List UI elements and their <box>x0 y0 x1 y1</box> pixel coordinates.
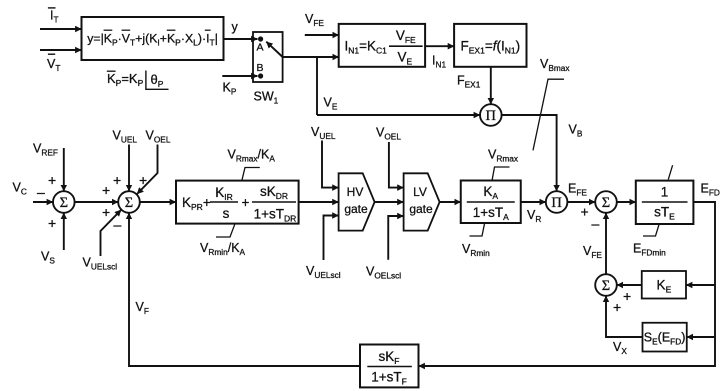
svg-text:VUEL: VUEL <box>311 125 336 141</box>
limit annotation VRmax <box>492 167 510 181</box>
svg-text:Π: Π <box>551 195 562 211</box>
svg-text:KE: KE <box>657 278 672 295</box>
wire S2 to PID <box>140 201 176 203</box>
svg-text:EFDmin: EFDmin <box>633 242 666 258</box>
wire VUELscl to S2 <box>101 210 122 256</box>
svg-text:VS: VS <box>41 250 55 266</box>
block SE(EFD) <box>643 323 687 352</box>
svg-text:sKF: sKF <box>379 349 400 366</box>
svg-text:VFE: VFE <box>583 244 602 260</box>
angle bracket of KP=KP theta <box>146 71 169 90</box>
svg-text:1+sTA: 1+sTA <box>473 205 509 222</box>
summing junction S4 <box>595 274 617 296</box>
svg-text:sKDR: sKDR <box>260 184 288 201</box>
block FEX1=f(IN1) <box>454 24 526 67</box>
wire branch to KE <box>686 284 715 286</box>
block y=|KP*VT+j(KI+KP*XL)*IT| <box>82 17 224 60</box>
switch arm SW1 <box>266 42 282 57</box>
svg-text:Σ: Σ <box>60 195 68 211</box>
svg-text:VE: VE <box>324 96 338 112</box>
svg-text:SW1: SW1 <box>254 90 279 106</box>
multiplier P2 <box>546 191 568 213</box>
svg-text:Π: Π <box>486 108 497 124</box>
svg-text:KIR: KIR <box>215 185 233 202</box>
svg-text:+: + <box>102 204 110 220</box>
wire y to node A <box>224 38 258 40</box>
block KA/(1+sTA) <box>461 181 521 224</box>
svg-text:1: 1 <box>661 185 669 200</box>
wire KE to S4 <box>617 284 642 286</box>
node B dot <box>258 73 263 78</box>
svg-text:sTE: sTE <box>654 205 675 222</box>
svg-text:VOEL: VOEL <box>146 129 171 145</box>
svg-text:VUELscl: VUELscl <box>306 264 341 280</box>
HV gate shape <box>339 173 375 230</box>
svg-text:VF: VF <box>136 300 149 316</box>
svg-text:VE: VE <box>397 50 412 67</box>
svg-text:FEX1=f(IN1): FEX1=f(IN1) <box>460 39 520 56</box>
svg-text:VRmin: VRmin <box>462 242 490 258</box>
limit annotation VRmin/KA <box>216 224 235 237</box>
svg-text:VC: VC <box>13 181 27 197</box>
svg-text:VFE: VFE <box>305 12 324 28</box>
wire SW1 output to IN1 block <box>283 56 339 58</box>
summing junction S2 <box>118 191 140 213</box>
svg-text:VUEL: VUEL <box>113 129 138 145</box>
summing junction S1 <box>53 191 75 213</box>
svg-text:gate: gate <box>344 202 368 216</box>
wire VS up <box>63 213 65 250</box>
wire VE drop from junction <box>316 57 318 115</box>
svg-text:1+sTDR: 1+sTDR <box>254 207 297 224</box>
wire P1 output VB to P2 <box>502 115 557 191</box>
svg-text:1+sTF: 1+sTF <box>371 370 407 387</box>
svg-text:KP: KP <box>223 81 237 97</box>
svg-text:EFE: EFE <box>568 182 587 198</box>
svg-text:VFE: VFE <box>396 28 416 45</box>
svg-text:HV: HV <box>347 185 364 199</box>
svg-text:VREF: VREF <box>33 142 58 158</box>
svg-text:+: + <box>139 172 147 188</box>
overbars in y formula <box>104 29 211 31</box>
svg-text:y=|KP·VT+j(KI+KP·XL)·IT|: y=|KP·VT+j(KI+KP·XL)·IT| <box>87 32 218 48</box>
svg-text:VOEL: VOEL <box>376 126 401 142</box>
node A dot <box>258 36 263 41</box>
wire VREF down <box>63 148 65 191</box>
block 1/sTE <box>636 181 694 224</box>
svg-text:VOELscl: VOELscl <box>366 265 401 281</box>
svg-text:KP=KP: KP=KP <box>107 71 144 88</box>
svg-text:+: + <box>102 182 110 198</box>
limit annotation above TE <box>668 165 672 179</box>
svg-text:Σ: Σ <box>602 195 610 211</box>
wire VOELscl to LV gate <box>388 216 403 260</box>
svg-text:+: + <box>581 204 589 220</box>
limit annotation VRmax/KA <box>242 168 260 181</box>
svg-text:VT: VT <box>47 57 60 73</box>
wire VOEL to LV gate <box>389 142 404 188</box>
block PID KPR+KIR/s+sKDR/(1+sTDR) <box>176 181 299 224</box>
wire EFD output and feedback bus <box>419 202 716 366</box>
svg-text:EFD: EFD <box>701 182 720 198</box>
svg-text:s: s <box>223 206 230 221</box>
summing junction S3 <box>595 191 617 213</box>
block KE <box>642 271 686 299</box>
svg-text:–: – <box>37 184 45 200</box>
wire VR KA to P2 <box>521 201 546 203</box>
svg-text:VX: VX <box>613 340 627 356</box>
limit annotation EFDmin <box>643 225 659 236</box>
svg-text:A: A <box>257 42 264 54</box>
wire VUEL to HV gate <box>322 141 339 188</box>
wire VF feedback from sKF to S2 <box>129 213 360 366</box>
block IN1=KC1*VFE/VE <box>339 24 425 67</box>
svg-text:Σ: Σ <box>602 278 610 294</box>
svg-text:θP: θP <box>151 72 164 89</box>
svg-text:VB: VB <box>569 123 583 139</box>
svg-text:IN1: IN1 <box>432 54 446 70</box>
svg-text:VBmax: VBmax <box>540 57 570 73</box>
limit annotation VRmin <box>470 224 485 236</box>
svg-text:Σ: Σ <box>125 195 133 211</box>
svg-text:VRmin/KA: VRmin/KA <box>200 241 246 257</box>
LV gate shape <box>404 173 440 230</box>
wire VT input <box>40 49 82 51</box>
svg-text:y: y <box>232 20 239 34</box>
svg-text:FEX1: FEX1 <box>457 74 481 90</box>
wire S1 to S2 <box>75 201 119 203</box>
svg-text:B: B <box>257 62 264 74</box>
svg-text:–: – <box>592 216 600 232</box>
svg-text:+: + <box>113 172 121 188</box>
wire S3 to TE block <box>617 201 636 203</box>
wire IN1 to FEX1 <box>425 45 454 47</box>
wire VFE S4 to S3 <box>605 213 607 274</box>
multiplier P1 <box>480 104 502 126</box>
svg-text:+: + <box>613 299 621 315</box>
svg-text:VRmax: VRmax <box>488 148 519 164</box>
svg-text:SE(EFD): SE(EFD) <box>644 331 686 347</box>
svg-text:IN1=KC1: IN1=KC1 <box>345 39 388 56</box>
wire KP to node B <box>222 75 257 77</box>
wire HV to LV gate <box>375 201 404 203</box>
svg-text:VUELscl: VUELscl <box>83 256 118 272</box>
svg-text:gate: gate <box>409 202 433 216</box>
wire VX SE to S4 <box>606 296 643 337</box>
svg-text:IT: IT <box>50 9 59 25</box>
wire branch to SE <box>687 336 715 338</box>
svg-text:+: + <box>48 215 56 231</box>
limit annotation VBmax <box>533 79 564 150</box>
svg-text:+: + <box>48 172 56 188</box>
wire EFE P2 to S3 <box>567 201 595 203</box>
wire FEX1 down to P1 <box>490 67 492 104</box>
wire VFE input to IN1 block <box>305 34 339 36</box>
wire VUEL down to S2 <box>128 145 130 192</box>
wire VE to multiplier P1 <box>317 114 480 116</box>
wire IT input <box>40 28 82 30</box>
svg-text:LV: LV <box>413 185 427 199</box>
wire VC input <box>33 201 53 203</box>
svg-text:VR: VR <box>527 208 541 224</box>
svg-text:KPR+: KPR+ <box>182 195 211 212</box>
block sKF/(1+sTF) <box>360 345 419 388</box>
svg-text:–: – <box>114 217 122 233</box>
wire LV gate to KA <box>440 201 461 203</box>
svg-text:KA: KA <box>483 184 498 201</box>
svg-text:VRmax/KA: VRmax/KA <box>228 148 276 164</box>
svg-text:+: + <box>242 195 250 210</box>
wire VOEL to S2 <box>137 145 158 195</box>
switch SW1 box <box>253 32 283 82</box>
svg-text:+: + <box>623 288 631 304</box>
wire PID to HV gate <box>299 201 339 203</box>
wire VUELscl to HV gate <box>324 216 339 261</box>
